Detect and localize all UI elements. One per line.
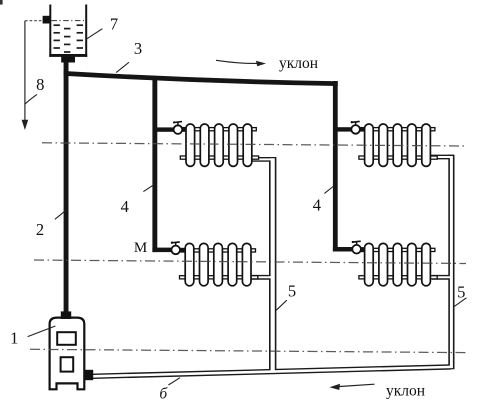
radiator bottom-left: sections (185, 243, 251, 285)
expansion tank 7: left wall (49, 5, 51, 57)
tank overflow fitting (black square on left wall) (43, 16, 50, 24)
boiler lower door (61, 357, 74, 371)
radiator bottom-right: headers (359, 248, 437, 279)
bottom-left radiator outlet (black pass) (252, 275, 272, 280)
scan corner artifact (0, 0, 3, 5)
pointer to overflow pipe (25, 94, 37, 104)
bottom-right outlet white channel (432, 276, 451, 278)
pointer to boiler (28, 326, 56, 337)
svg-text:4: 4 (313, 196, 321, 215)
top-left radiator outlet (black pass) (252, 157, 276, 162)
overflow pipe 8: dashed horizontal from fitting (25, 20, 43, 22)
valve, top-left radiator (173, 121, 186, 134)
svg-text:уклон: уклон (279, 55, 318, 72)
valve, top-right radiator (351, 121, 365, 134)
top-right radiator outlet (black pass) (430, 155, 454, 160)
pointer to right downpipe (454, 298, 467, 307)
pointer from b to return main (168, 378, 180, 385)
slope arrow bottom (uklon) (334, 384, 375, 387)
right downpipe 5 (black pass) (448, 155, 454, 369)
tank water hatching dashes (54, 25, 84, 52)
floor level dash-dot line 2 (34, 260, 466, 264)
expansion tank 7: bottom (49, 54, 87, 57)
svg-text:2: 2 (36, 220, 44, 239)
radiator top-right: sections (365, 124, 431, 166)
right downpipe white channel (450, 156, 453, 368)
radiator bottom-left: headers (180, 249, 258, 279)
pointer to riser 2 (55, 210, 67, 220)
riser 4 (left, thick vertical) (152, 77, 157, 253)
radiator bottom-right: sections (365, 243, 431, 285)
floor level dash-dot line 3 (30, 349, 466, 352)
valve inlet stub, top-left radiator (155, 127, 174, 131)
radiator top-left: headers (180, 128, 258, 160)
return main (double line, black pass) (88, 367, 451, 377)
tank bottom outlet fitting (61, 57, 75, 63)
return main white channel (88, 367, 453, 377)
svg-text:М: М (134, 240, 147, 256)
supply main 3 (thick, sloping) (64, 71, 338, 86)
svg-text:1: 1 (10, 329, 18, 348)
radiator top-right: headers (359, 128, 437, 160)
elbow inlet, bottom-right radiator (333, 247, 353, 252)
riser 4 (right, thick vertical) (333, 81, 338, 252)
svg-text:5: 5 (288, 282, 296, 301)
valve, bottom-right radiator (352, 241, 365, 254)
svg-text:8: 8 (36, 75, 44, 94)
pointer to main 3 (116, 62, 129, 72)
riser pipe 2 (thick vertical, tank to boiler) (64, 62, 69, 313)
boiler 1 body (50, 318, 85, 390)
top-right outlet white channel (430, 156, 452, 158)
left downpipe 5 (black pass) (269, 157, 276, 372)
overflow pipe 8: vertical line with down arrow (24, 21, 26, 122)
floor level dash-dot line 1 (42, 143, 466, 146)
top-left outlet white channel (252, 158, 273, 160)
expansion tank 7: right wall (85, 5, 87, 57)
slope arrow top (uklon) (216, 60, 259, 63)
radiator top-left: sections (186, 124, 252, 166)
svg-text:7: 7 (110, 15, 118, 34)
boiler top fitting (61, 311, 71, 319)
svg-text:б: б (159, 386, 168, 403)
valve, bottom-left radiator (171, 242, 185, 255)
pointer to right riser 4 (324, 186, 333, 193)
tank water level dash-dot line (52, 20, 86, 22)
bottom-right radiator outlet (black pass) (432, 275, 450, 280)
svg-text:3: 3 (134, 39, 142, 58)
bottom-left outlet white channel (252, 276, 272, 278)
svg-text:5: 5 (457, 282, 465, 301)
pointer to left downpipe (276, 300, 287, 310)
left downpipe white channel (271, 158, 275, 371)
boiler return fitting (84, 370, 93, 380)
boiler upper door (57, 332, 76, 345)
pointer to left riser 4 (143, 185, 154, 192)
pointer to tank (87, 29, 103, 39)
svg-text:4: 4 (121, 197, 129, 216)
valve inlet stub, top-right radiator (336, 127, 352, 131)
svg-text:уклон: уклон (386, 383, 425, 400)
elbow inlet, bottom-left radiator (152, 248, 171, 253)
